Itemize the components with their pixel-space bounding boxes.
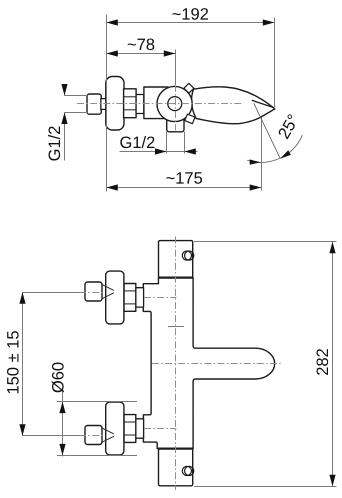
label 150 +- 15 rotated <box>7 331 19 393</box>
vertical centerline (front view) <box>175 237 177 491</box>
dim G1/2 left (pipe) <box>64 85 66 96</box>
valve body block <box>144 87 168 119</box>
arc arrow at vertical leg <box>250 159 261 164</box>
centerline horizontal (top drawing) <box>77 103 242 105</box>
label G1/2 left rotated <box>48 126 60 160</box>
dim 282 <box>332 242 334 487</box>
top hex nut <box>124 284 136 312</box>
dim 150 +- 15 <box>22 293 24 436</box>
cartridge inner circle <box>168 97 182 111</box>
hex nut (side view) <box>124 89 137 118</box>
25 deg arc <box>247 135 302 162</box>
top port centerline (wall side) <box>79 292 105 294</box>
wall flange escutcheon (side view) <box>106 77 124 131</box>
label ~192 <box>172 8 208 20</box>
top cap screw <box>182 251 191 260</box>
wall union nut (side view) <box>87 94 101 114</box>
spout (side profile) <box>192 87 275 124</box>
spout tip facet line <box>252 100 274 108</box>
bottom eccentric cone <box>102 428 114 434</box>
extension line spout underside <box>261 118 263 191</box>
centerline vertical through valve <box>175 85 177 131</box>
bottom cap <box>159 449 193 486</box>
top cap <box>159 241 193 278</box>
bottom cap screw <box>182 466 191 475</box>
dim ~192 <box>106 22 275 24</box>
center cross mark <box>168 326 184 328</box>
bottom wall union nut <box>85 426 102 445</box>
label 282 rotated <box>316 349 328 375</box>
label G1/2 bottom port <box>120 136 154 148</box>
top port centerline (body side) <box>144 297 177 299</box>
label 25 deg rotated <box>277 114 299 140</box>
extension line valve axis <box>175 50 177 85</box>
bottom tab on housing <box>185 114 195 124</box>
extension lines 282 <box>194 241 337 243</box>
dim ~78 <box>106 53 176 55</box>
extension line left (wall face) <box>106 15 108 192</box>
bottom wall flange <box>106 402 124 455</box>
top eccentric cone <box>102 284 114 290</box>
extension lines dia 60 <box>57 401 137 403</box>
top wall flange <box>106 271 124 324</box>
top tab on housing <box>184 83 194 93</box>
union neck <box>101 99 106 110</box>
valve cartridge housing circle <box>157 86 192 121</box>
25 deg reference line <box>254 103 280 158</box>
bottom port centerline (wall side) <box>79 435 105 437</box>
bottom outlet port G1/2 <box>167 114 184 132</box>
extension lines 150 <box>23 292 85 294</box>
top wall union nut <box>85 282 102 301</box>
label dia 60 rotated <box>52 363 64 393</box>
label ~78 <box>128 38 155 50</box>
extension lines port <box>166 132 168 154</box>
dim dia 60 <box>62 389 64 457</box>
dim G1/2 bottom port <box>120 151 198 153</box>
supply pipe stub lines <box>65 95 88 97</box>
inlet cylinder <box>136 95 144 114</box>
top inlet cylinder <box>136 288 144 307</box>
arc arrow at slanted leg <box>280 150 291 158</box>
dim ~175 <box>106 187 261 189</box>
bottom cap top thick edge <box>158 447 193 449</box>
bottom hex nut <box>124 415 136 443</box>
spout axis centerline <box>152 363 282 365</box>
extension line right (spout tip) <box>274 18 276 108</box>
top cap bottom thick edge <box>158 276 193 278</box>
bottom inlet cylinder <box>136 419 144 438</box>
bottom port centerline (body side) <box>144 428 177 430</box>
label ~175 <box>166 172 202 184</box>
body slab with bosses and spout <box>143 278 274 449</box>
